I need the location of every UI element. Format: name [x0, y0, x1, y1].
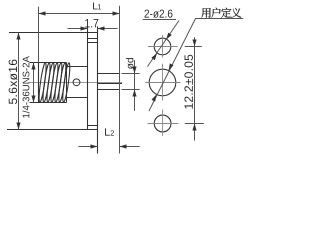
dim od extension top: [121, 73, 139, 75]
body bottom edge: [67, 97, 88, 99]
leader 2-o2.6: [143, 20, 179, 67]
label user-defined (CJK paths): [201, 8, 241, 18]
dim 1.7 line left: [68, 26, 88, 30]
dim L1 extension left: [38, 7, 40, 63]
crosshair bottom hole: [148, 110, 179, 137]
dim L1 label: [93, 3, 101, 10]
leader user-defined: [149, 19, 243, 112]
barrel top edge with extension: [30, 62, 67, 64]
dielectric cylinder bottom edge: [98, 89, 120, 91]
flange bottom edge with extension: [7, 129, 98, 131]
flange hole line b: [88, 42, 98, 44]
crosshair center hole: [146, 64, 181, 101]
dim 12.2 extension bottom: [185, 123, 204, 125]
dim L2 line left: [78, 144, 97, 148]
dim 12.2 extension top: [185, 46, 202, 48]
label 2-o2.6: [145, 10, 173, 18]
set screw hole: [73, 79, 80, 86]
dielectric cylinder top edge: [98, 73, 120, 75]
flange hole line a: [88, 38, 98, 40]
flange top edge with extension: [9, 32, 98, 34]
dim od line: [132, 60, 136, 111]
flange hole line c: [88, 125, 98, 127]
dim 1.7 line right: [98, 26, 118, 30]
dim thread label 1/4-36UNS-2A: [22, 56, 29, 118]
barrel bottom edge with extension: [30, 102, 67, 104]
body top edge: [67, 66, 88, 68]
dim od label: [126, 58, 134, 69]
dim 12.2 line: [192, 37, 196, 140]
body shoulder: [66, 63, 68, 103]
crosshair top hole: [148, 35, 178, 58]
dim L2 label: [105, 128, 114, 135]
dim od extension bottom: [121, 89, 139, 91]
dim 1.7 label: [85, 19, 98, 27]
dim 12.2 label: [184, 55, 193, 109]
flange left face: [87, 26, 89, 130]
barrel left end face: [38, 63, 40, 103]
center hole: [149, 69, 176, 96]
dim L2 line right: [120, 144, 140, 148]
centerline axis: [28, 82, 122, 84]
dim flange height label 5.6x&#248;16: [9, 60, 18, 104]
mounting hole bottom: [154, 115, 171, 132]
dielectric right face and extension line: [119, 6, 121, 154]
dim flange height line: [16, 33, 20, 130]
mounting hole top: [154, 38, 171, 55]
thread coils 1/4-36UNS-2A: [38, 63, 71, 103]
flange right face: [97, 26, 99, 153]
pin center contact: [98, 83, 123, 85]
dim thread line: [31, 63, 35, 103]
dim L1 line: [39, 11, 120, 15]
